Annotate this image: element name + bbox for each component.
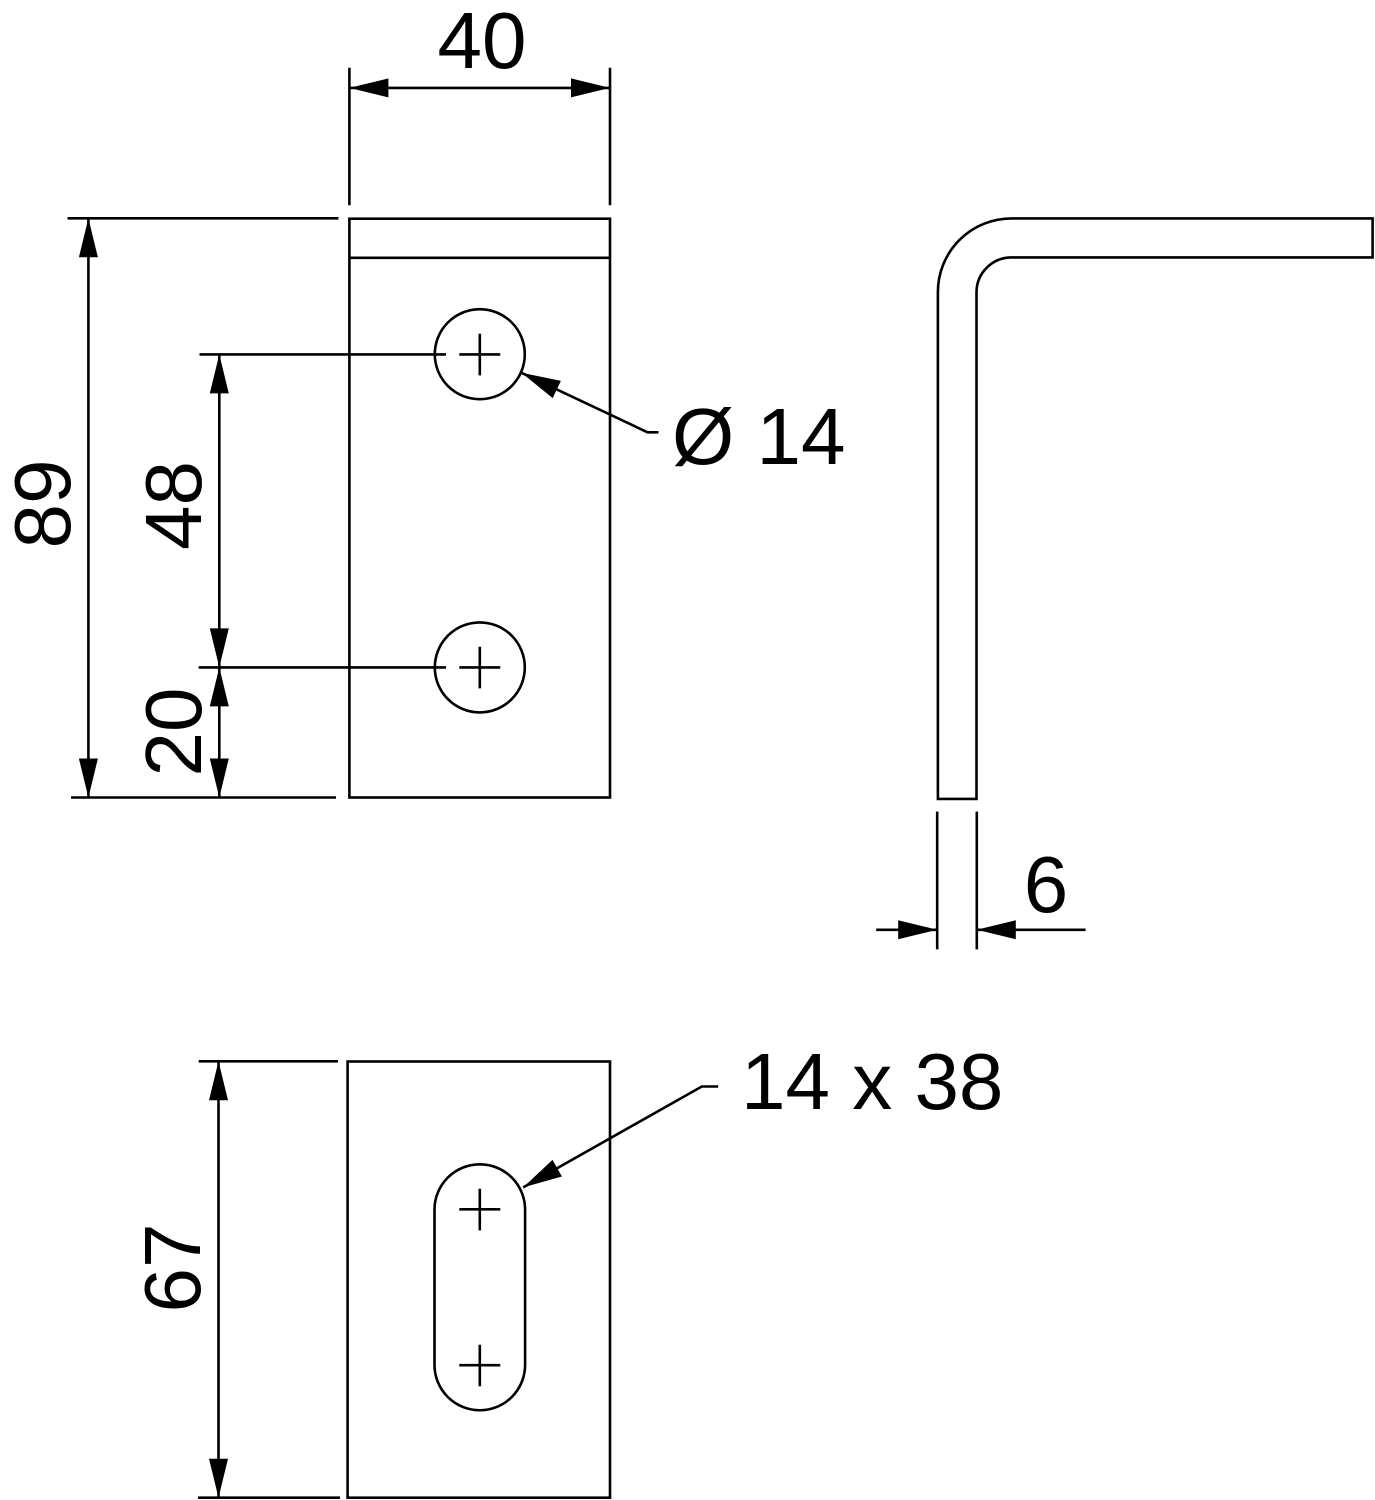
svg-text:40: 40	[438, 0, 527, 85]
svg-text:67: 67	[128, 1224, 217, 1313]
svg-text:48: 48	[129, 461, 218, 550]
svg-text:6: 6	[1024, 840, 1069, 929]
svg-text:14 x 38: 14 x 38	[741, 1037, 1003, 1126]
svg-text:89: 89	[0, 460, 87, 549]
svg-text:Ø 14: Ø 14	[672, 392, 845, 481]
svg-text:20: 20	[129, 688, 218, 777]
